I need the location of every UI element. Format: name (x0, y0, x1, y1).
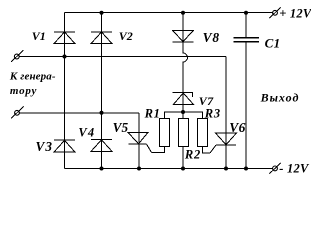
node top rail / V8 junction (181, 11, 185, 15)
node bottom rail / V6 junction (224, 167, 228, 171)
wire vertical V8-V7 branch with hop over upper line (183, 13, 188, 119)
diode V1 (54, 32, 75, 44)
capacitor C1 (234, 38, 260, 42)
svg-text:V4: V4 (78, 126, 95, 140)
resistor R3 (198, 119, 208, 147)
node bottom rail / V4 junction (100, 167, 104, 171)
wire V5 branch (138, 113, 140, 169)
wire upper generator line (19, 56, 226, 58)
terminal +12V (269, 7, 280, 18)
node V7 / resistor network junction (181, 110, 185, 114)
svg-text:C1: C1 (265, 36, 281, 51)
svg-text:V6: V6 (229, 120, 245, 135)
wire C1 branch lower (245, 42, 247, 169)
diode V2 (91, 32, 112, 44)
resistor R2 (179, 119, 189, 147)
resistor R1 (160, 119, 170, 147)
svg-text:R2: R2 (184, 148, 201, 162)
terminal -12V (269, 163, 280, 174)
node bottom rail / V5 junction (137, 167, 141, 171)
node top rail / C1 junction (244, 11, 248, 15)
svg-text:R1: R1 (144, 107, 161, 121)
svg-text:+ 12V: + 12V (279, 7, 311, 21)
diode V3 (54, 140, 75, 152)
svg-text:R3: R3 (204, 107, 221, 121)
wire R2 bottom stub (182, 147, 184, 169)
wire resistor network top (165, 112, 203, 119)
svg-text:К генера-: К генера- (9, 71, 56, 83)
wire R1 bottom stub to V5 gate (152, 147, 165, 153)
wire vertical V1-V3 branch (64, 13, 66, 169)
wire vertical V2-V4 branch (101, 13, 103, 169)
node bottom rail / R2 junction (181, 167, 185, 171)
svg-text:V1: V1 (32, 29, 46, 43)
svg-text:Выход: Выход (260, 90, 300, 104)
wire C1 branch upper (245, 13, 247, 38)
terminal K generator upper (11, 50, 24, 62)
wire top +12V rail (65, 12, 273, 14)
svg-text:V5: V5 (113, 120, 129, 135)
svg-text:V3: V3 (36, 139, 54, 154)
svg-text:тору: тору (10, 85, 37, 97)
zener diode V7 (173, 93, 194, 105)
thyristor V5 (128, 132, 152, 152)
wire V6 branch (225, 57, 227, 169)
wire bottom -12V rail (65, 168, 273, 170)
wire lower generator line (19, 112, 139, 114)
node bottom rail / C1 junction (244, 167, 248, 171)
node top rail / V2 junction (100, 11, 104, 15)
thyristor V6 (210, 133, 237, 153)
svg-text:V2: V2 (119, 29, 133, 43)
wire R3 bottom stub to V6 gate (203, 147, 211, 154)
diode V8 (173, 30, 194, 42)
terminal K generator lower (11, 107, 24, 119)
node lower line / V2-V4 junction (100, 111, 104, 115)
diode V4 (91, 140, 112, 152)
node upper line / V1 junction (63, 55, 67, 59)
svg-text:V8: V8 (203, 30, 220, 45)
svg-text:- 12V: - 12V (279, 162, 310, 176)
